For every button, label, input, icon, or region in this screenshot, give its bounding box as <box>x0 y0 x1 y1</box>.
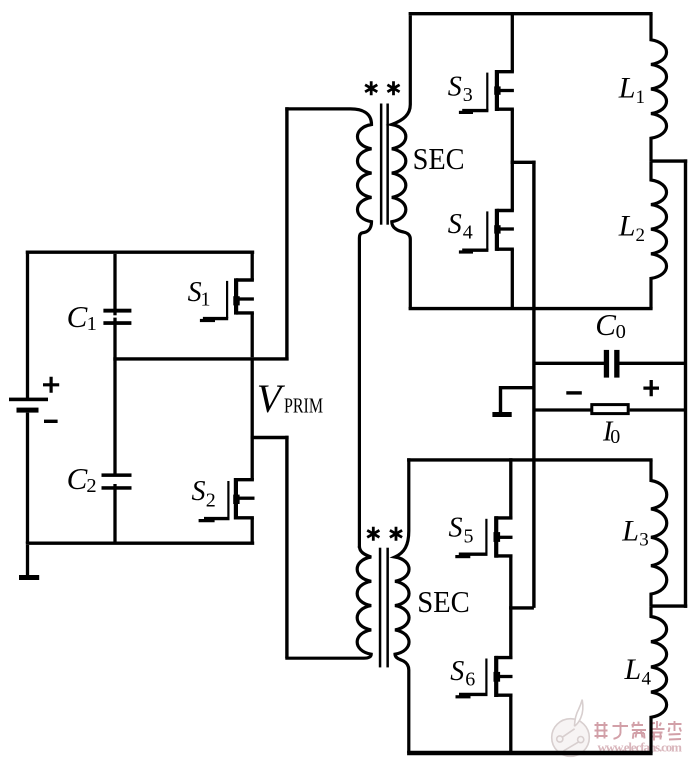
svg-text:L: L <box>621 514 639 547</box>
wire S2 source to bottom rail <box>251 518 254 543</box>
svg-text:S: S <box>448 209 462 240</box>
wire primary feed vertical <box>285 107 288 360</box>
svg-text:S: S <box>449 513 463 544</box>
svg-text:L: L <box>618 210 636 243</box>
svg-text:3: 3 <box>639 530 649 551</box>
svg-text:0: 0 <box>616 321 626 343</box>
inductor L2 <box>651 161 667 309</box>
inductor L3 <box>651 460 667 606</box>
wire capacitor column middle <box>113 318 116 474</box>
wire left side bottom <box>26 413 29 544</box>
battery B1 <box>9 377 59 422</box>
transformer T2 core <box>379 548 389 668</box>
svg-text:2: 2 <box>636 225 646 246</box>
wire box1 bottom rail <box>409 307 653 310</box>
wire S4 source to bottom rail <box>511 249 514 308</box>
svg-text:V: V <box>257 376 286 421</box>
svg-text:2: 2 <box>86 475 96 497</box>
wire C0 left <box>534 362 604 365</box>
wire branch down to lower primary <box>285 436 288 658</box>
polarity dot T2 a <box>367 527 379 541</box>
wire midpoint tap <box>532 161 535 608</box>
ground symbol <box>492 412 511 417</box>
wire I0 right <box>630 408 687 411</box>
wire midpoint rail <box>113 357 288 360</box>
wire left side top <box>26 251 29 398</box>
svg-text:C: C <box>595 307 616 342</box>
svg-text:SEC: SEC <box>413 141 465 176</box>
transistor S2 <box>199 478 255 521</box>
sense resistor I0 <box>592 405 628 414</box>
capacitor C1 gap <box>113 316 118 318</box>
wire S1 drain from top rail <box>251 251 254 280</box>
svg-text:1: 1 <box>636 87 646 108</box>
wire jog to tap <box>511 161 536 164</box>
svg-text:PRIM: PRIM <box>284 393 323 417</box>
svg-text:4: 4 <box>642 668 652 689</box>
polarity dot T2 b <box>390 527 402 541</box>
capacitor C2 gap <box>113 481 118 482</box>
wire bottom rail <box>407 751 652 756</box>
svg-text:C: C <box>67 461 88 496</box>
transformer T2 secondary winding <box>395 458 409 753</box>
svg-text:1: 1 <box>87 313 97 335</box>
capacitor C0 <box>604 350 620 378</box>
wire C0 right <box>619 362 687 365</box>
wire S3 source to jog <box>511 109 514 162</box>
label minus <box>566 391 582 394</box>
wire S1 source to mid rail <box>251 313 254 357</box>
wire right rail <box>684 159 687 608</box>
wire ground stub <box>26 545 29 576</box>
svg-text:0: 0 <box>610 426 620 448</box>
wire top rail <box>26 251 254 254</box>
svg-text:S: S <box>188 277 202 308</box>
wire S5 source to junction <box>509 556 512 608</box>
svg-text:S: S <box>448 71 462 102</box>
wire S3 drain from rail <box>511 12 514 72</box>
watermark logo <box>552 700 590 757</box>
transistor S4 <box>459 209 514 252</box>
wire tap junction link <box>509 606 534 609</box>
wire box1 top rail <box>409 12 653 15</box>
svg-text:1: 1 <box>201 289 211 311</box>
transistor S6 <box>456 656 513 697</box>
wire S2 drain from mid rail <box>251 361 254 480</box>
ground terminal bar <box>19 575 39 580</box>
svg-text:5: 5 <box>464 525 474 547</box>
wire box2 top rail <box>407 458 652 461</box>
transistor S5 <box>455 516 512 558</box>
transformer T1 secondary winding <box>392 15 411 308</box>
transistor S1 <box>200 278 254 320</box>
wire capacitor column lower <box>113 484 116 543</box>
capacitor C1 <box>103 309 131 325</box>
watermark text electronics fans <box>595 721 682 741</box>
wire L3-L4 junction <box>651 604 687 607</box>
svg-text:S: S <box>450 656 464 687</box>
wire I0 left <box>534 408 591 411</box>
svg-text:2: 2 <box>206 489 216 511</box>
polarity dot T1 a <box>365 81 377 95</box>
svg-text:S: S <box>192 476 206 507</box>
wire S6 source to bottom rail <box>509 695 512 753</box>
svg-text:L: L <box>624 653 642 686</box>
inductor L1 <box>651 14 667 161</box>
transformer T2 primary winding <box>285 546 371 658</box>
wire S5-S6 mid <box>509 608 512 658</box>
wire ground branch <box>501 386 536 412</box>
svg-text:6: 6 <box>465 669 475 691</box>
inductor L4 <box>651 606 667 753</box>
transistor S3 <box>459 70 514 112</box>
wire S3-S4 mid <box>511 162 514 210</box>
transformer T1 core <box>380 104 389 225</box>
svg-text:3: 3 <box>463 84 473 106</box>
svg-text:SEC: SEC <box>417 584 470 619</box>
wire S2 drain branch <box>251 436 289 439</box>
svg-text:C: C <box>67 299 88 334</box>
wire L1-L2 junction <box>651 159 687 162</box>
wire S5 drain from rail <box>509 458 512 518</box>
label plus <box>643 380 659 396</box>
polarity dot T1 b <box>387 81 399 95</box>
svg-text:L: L <box>618 72 636 105</box>
capacitor C2 <box>102 473 132 489</box>
wire bottom rail <box>26 542 254 545</box>
svg-text:4: 4 <box>463 222 473 244</box>
wire capacitor column upper <box>113 254 116 315</box>
transformer T1 primary winding <box>285 109 371 548</box>
